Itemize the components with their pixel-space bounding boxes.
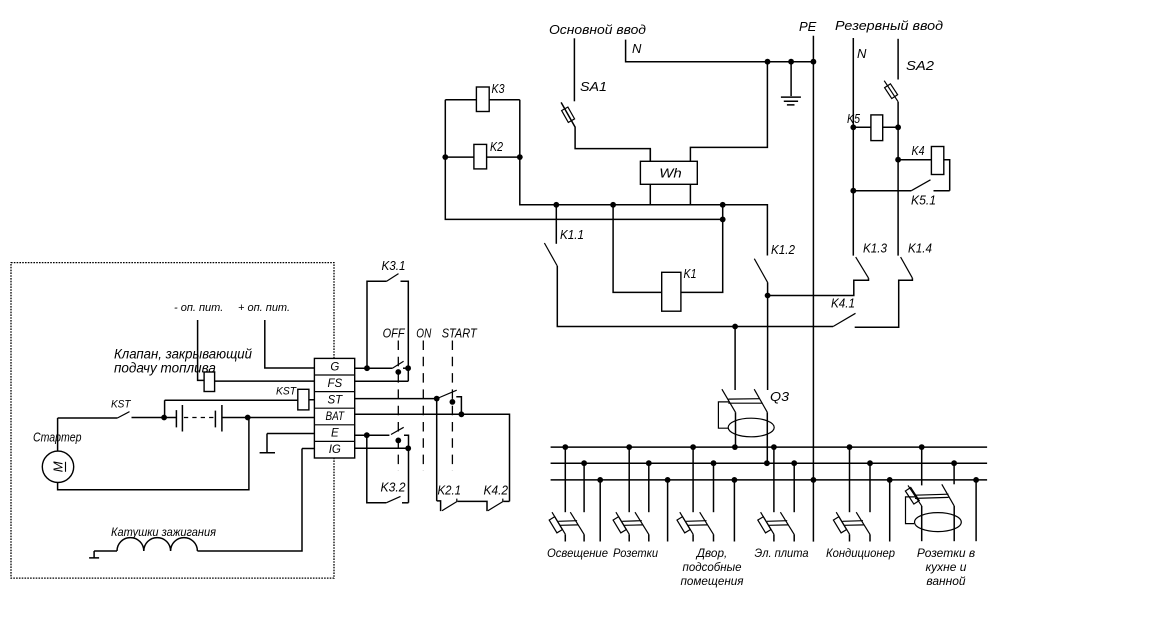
svg-text:Клапан, закрывающий: Клапан, закрывающий — [114, 347, 252, 362]
svg-text:K1.3: K1.3 — [863, 242, 887, 256]
svg-text:K5: K5 — [847, 112, 860, 126]
svg-text:Розетки: Розетки — [613, 546, 658, 560]
svg-text:Кондиционер: Кондиционер — [826, 546, 895, 560]
svg-text:K3: K3 — [492, 82, 505, 96]
svg-text:K3.2: K3.2 — [381, 481, 406, 495]
svg-text:- оп. пит.: - оп. пит. — [174, 302, 223, 314]
svg-text:Стартер: Стартер — [33, 431, 82, 445]
svg-text:подсобные: подсобные — [683, 560, 742, 574]
svg-text:ванной: ванной — [926, 574, 966, 588]
svg-text:Розетки в: Розетки в — [917, 546, 975, 560]
svg-text:K2: K2 — [490, 140, 503, 154]
svg-text:Двор,: Двор, — [695, 546, 727, 560]
svg-text:SA2: SA2 — [906, 59, 934, 73]
svg-text:IG: IG — [329, 444, 341, 456]
svg-text:K1: K1 — [684, 267, 697, 281]
svg-text:N: N — [857, 46, 867, 61]
svg-text:кухне и: кухне и — [926, 560, 967, 574]
svg-text:PE: PE — [799, 19, 817, 34]
svg-text:Wh: Wh — [659, 166, 682, 181]
svg-text:подачу топлива: подачу топлива — [114, 361, 216, 376]
svg-text:Катушки зажигания: Катушки зажигания — [111, 527, 216, 539]
svg-text:N: N — [632, 41, 642, 56]
svg-text:K4.1: K4.1 — [831, 297, 855, 311]
svg-text:K1.1: K1.1 — [560, 228, 584, 242]
svg-text:Основной ввод: Основной ввод — [549, 23, 646, 37]
svg-text:BAT: BAT — [326, 411, 345, 423]
svg-text:Резервный ввод: Резервный ввод — [835, 19, 943, 33]
svg-text:Q3: Q3 — [770, 390, 789, 404]
svg-text:KST: KST — [111, 399, 132, 411]
svg-text:K4.2: K4.2 — [484, 484, 509, 498]
svg-text:K5.1: K5.1 — [911, 194, 936, 208]
svg-text:Эл. плита: Эл. плита — [755, 546, 809, 560]
svg-text:M: M — [51, 461, 66, 472]
svg-text:Освещение: Освещение — [547, 546, 608, 560]
svg-text:K4: K4 — [912, 144, 925, 158]
svg-text:помещения: помещения — [681, 574, 745, 588]
svg-text:FS: FS — [327, 378, 342, 390]
svg-text:+ оп. пит.: + оп. пит. — [238, 302, 290, 314]
svg-text:E: E — [331, 428, 339, 440]
svg-text:K1.2: K1.2 — [771, 243, 795, 257]
svg-text:SA1: SA1 — [580, 80, 607, 94]
svg-text:K1.4: K1.4 — [908, 242, 932, 256]
svg-text:START: START — [442, 327, 478, 341]
svg-text:ON: ON — [416, 327, 432, 341]
svg-text:OFF: OFF — [383, 327, 406, 341]
svg-text:K3.1: K3.1 — [382, 259, 406, 273]
svg-text:K2.1: K2.1 — [438, 484, 462, 498]
svg-text:ST: ST — [327, 395, 343, 407]
svg-text:KST: KST — [276, 386, 297, 398]
svg-text:G: G — [330, 362, 339, 374]
